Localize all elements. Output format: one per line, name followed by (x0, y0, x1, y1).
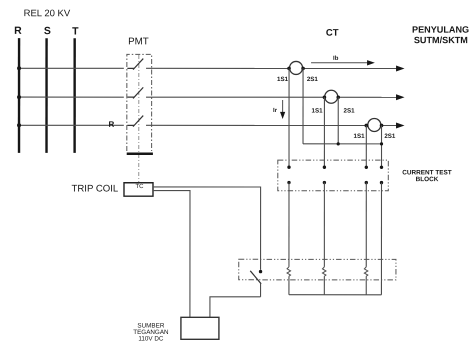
arrow Ir (282, 100, 284, 114)
relay coil squiggle 1 (287, 267, 291, 276)
wire TC to switch (153, 187, 261, 270)
breaker PMT bottom bar (127, 153, 153, 155)
breaker PMT pole 3 blade (133, 116, 143, 127)
svg-text:S: S (44, 25, 51, 37)
wire test block out 2 lower (323, 276, 325, 295)
svg-text:1S1: 1S1 (277, 76, 289, 83)
wire test block out 1 lower (288, 276, 290, 295)
node CT1 1S1 (287, 67, 291, 71)
busbar S (45, 38, 47, 153)
node busbar R phase 3 (17, 123, 21, 127)
arrowhead phase line 2 (396, 94, 405, 100)
node CT1 2S1 (301, 67, 305, 71)
relay coil squiggle 2 (322, 267, 326, 276)
breaker PMT pole 3 contact tick (127, 124, 134, 126)
wire phase line 3 right segment (146, 124, 398, 126)
arrowhead Ib (367, 60, 375, 65)
wire CT2 2S1 drop (337, 97, 339, 144)
wire CT1 1S1 drop (288, 68, 290, 167)
wire CT2 1S1 drop (323, 97, 325, 167)
node busbar R phase 2 (17, 95, 21, 99)
svg-text:PENYULANG: PENYULANG (412, 25, 469, 35)
svg-text:TC: TC (135, 183, 144, 190)
trip coil box TC (124, 183, 153, 196)
breaker PMT pole 1 blade (133, 59, 143, 70)
CT circle 1 (290, 61, 303, 74)
svg-text:110V DC: 110V DC (138, 335, 164, 342)
svg-text:1S1: 1S1 (312, 108, 324, 115)
busbar R (18, 38, 20, 153)
relay switch blade (250, 271, 261, 284)
node CT2 1S1 (323, 95, 327, 99)
wire TC to battery (153, 191, 190, 318)
breaker PMT enclosure dash-dot box (127, 54, 152, 151)
relay coil squiggle 3 (364, 267, 368, 276)
node CT3 1S1 (365, 124, 369, 128)
arrowhead phase line 1 (396, 65, 405, 71)
wire phase line 3 left segment (19, 124, 124, 126)
wire test block out 4 (380, 183, 382, 295)
wire CT3 2S1 drop (381, 125, 383, 167)
battery box SUMBER TEGANGAN (181, 317, 219, 339)
node common bus CT3 (380, 142, 383, 145)
relay dash-dot box (239, 259, 396, 280)
node CT2 2S1 (336, 95, 340, 99)
node test block top 2 (323, 166, 326, 169)
arrowhead phase line 3 (396, 122, 405, 128)
CT circle 3 (368, 118, 381, 131)
node relay switch top (259, 270, 262, 273)
svg-text:2S1: 2S1 (344, 108, 356, 115)
wire CT3 1S1 drop (365, 125, 367, 167)
node common bus CT2 (337, 142, 340, 145)
node test block bottom 4 (380, 181, 383, 184)
node test block bottom 2 (323, 181, 326, 184)
wire phase line 2 left segment (19, 96, 124, 98)
svg-text:2S1: 2S1 (384, 133, 396, 140)
node test block top 4 (380, 166, 383, 169)
svg-text:T: T (72, 26, 79, 38)
arrowhead Ir (280, 112, 285, 119)
node test block bottom 1 (287, 181, 290, 184)
wire test block out 3 upper (365, 183, 367, 267)
svg-text:CT: CT (326, 28, 339, 39)
current test block dash-dot box (278, 160, 389, 191)
wire test block out 1 upper (288, 183, 290, 267)
wire test block out 3 lower (365, 276, 367, 295)
svg-text:SUTM/SKTM: SUTM/SKTM (414, 35, 468, 45)
wire test block out 2 upper (323, 183, 325, 267)
breaker PMT pole 1 contact tick (127, 67, 134, 69)
svg-text:2S1: 2S1 (307, 76, 319, 83)
wire CT1 2S1 drop (302, 68, 304, 143)
svg-text:BLOCK: BLOCK (416, 176, 439, 183)
node test block bottom 3 (365, 181, 368, 184)
svg-text:R: R (109, 120, 115, 129)
svg-text:1S1: 1S1 (354, 133, 366, 140)
wire phase line 2 right segment (146, 96, 398, 98)
svg-text:R: R (14, 25, 22, 37)
wire switch bottom (260, 283, 262, 297)
node busbar R phase 1 (17, 66, 21, 70)
wire battery to switch (210, 297, 261, 318)
arrow Ib (311, 62, 369, 64)
breaker PMT centerline (138, 55, 140, 182)
breaker PMT pole 2 blade (133, 87, 143, 98)
node test block top 3 (365, 166, 368, 169)
wire phase line 1 left segment (19, 67, 124, 69)
wire 2S1 common bus (303, 143, 382, 145)
node CT3 2S1 (380, 124, 384, 128)
svg-text:Ib: Ib (333, 55, 339, 62)
CT circle 2 (325, 90, 338, 103)
busbar T (73, 38, 75, 153)
wire secondary bottom bus (289, 294, 381, 296)
node test block top 1 (287, 166, 290, 169)
svg-text:REL 20 KV: REL 20 KV (24, 8, 71, 19)
svg-text:PMT: PMT (128, 36, 149, 47)
breaker PMT pole 2 contact tick (127, 96, 134, 98)
wire phase line 1 right segment (146, 67, 398, 69)
svg-text:TRIP COIL: TRIP COIL (71, 184, 118, 195)
svg-text:Ir: Ir (273, 107, 278, 114)
